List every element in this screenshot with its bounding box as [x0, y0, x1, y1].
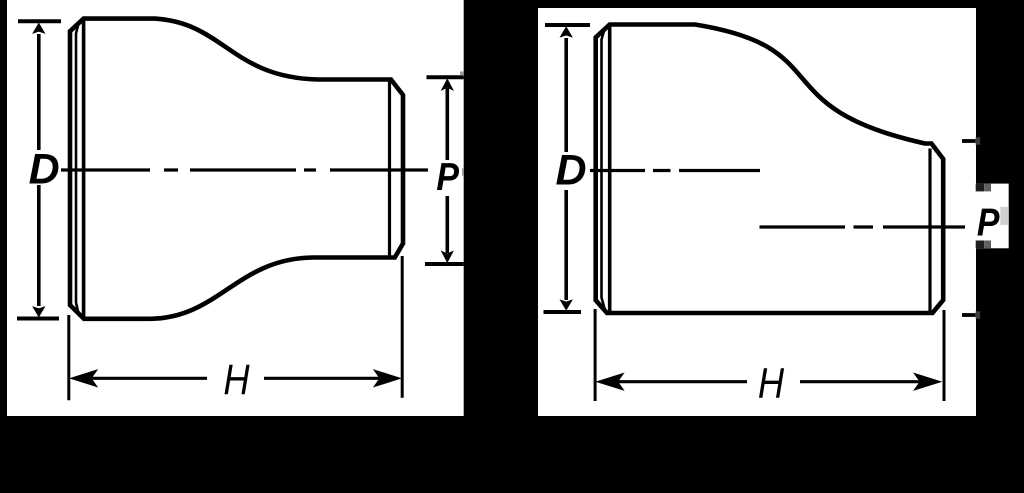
dimension H (left): right extension line [401, 256, 404, 398]
dimension D (left): up arrowhead [33, 24, 44, 34]
dimension H (right): left extension line [594, 309, 597, 401]
svg-text:P: P [977, 201, 1000, 244]
dimension H (left): left arrowhead [71, 370, 97, 387]
dimension P (right): arrow remnant squares at label box corners [976, 184, 1008, 249]
eccentric reducer small-end thin line [928, 149, 931, 312]
dimension H (right): right arrowhead [914, 373, 940, 390]
concentric reducer big-end seam line [82, 19, 86, 319]
eccentric reducer body outline [596, 25, 944, 314]
dimension D (left): down arrowhead [33, 307, 44, 317]
P label white box (right diagram) [976, 184, 1009, 249]
eccentric reducer big-end bevel thin line [602, 28, 605, 309]
svg-text:D: D [556, 146, 587, 194]
concentric reducer big-end bevel thin line [76, 22, 79, 315]
svg-text:D: D [29, 145, 60, 193]
dimension P (left): down arrowhead [442, 252, 453, 263]
svg-text:H: H [223, 356, 250, 403]
dimension H (left): right arrowhead [374, 370, 400, 387]
concentric reducer body outline [70, 19, 403, 319]
svg-text:H: H [758, 360, 785, 407]
right white panel [538, 8, 976, 416]
dimension D (left): bottom tick [17, 317, 59, 321]
dimension D (left): vertical line [37, 34, 41, 306]
dimension P (right): bottom tick [962, 313, 976, 317]
dimension H (right): dimension line [618, 380, 920, 383]
dimension D (right): vertical line [564, 38, 568, 300]
dimension P (left): vertical line [445, 88, 449, 253]
dimension H (left): left extension line [67, 315, 70, 400]
dimension P (left): bottom tick [425, 262, 464, 266]
dimension H (right): left arrowhead [597, 373, 623, 390]
dimension D (right): bottom tick [544, 310, 582, 314]
dimension P (left): gray remnant at panel edge [460, 72, 464, 76]
left white panel [7, 0, 464, 416]
dimension P (left): top tick [427, 75, 464, 79]
dimension D (right): top tick [545, 23, 590, 27]
eccentric reducer centerline (small end) [760, 225, 966, 228]
dimension P (right): top tick [962, 139, 976, 143]
dimension H (left): dimension line [92, 377, 380, 380]
eccentric reducer big-end seam line [608, 25, 612, 314]
svg-text:P: P [436, 156, 459, 199]
dimension H (right): right extension line [943, 310, 946, 401]
eccentric reducer centerline (big end) [590, 169, 760, 172]
dimension P (right): tick remnants over black edge [976, 137, 981, 319]
concentric reducer small-end thin line [388, 81, 391, 257]
dimension D (left): top tick [18, 19, 61, 23]
dimension P (left): up arrowhead [442, 79, 453, 90]
dimension D (right): up arrowhead [561, 27, 572, 37]
dimension D (right): down arrowhead [561, 300, 572, 310]
concentric reducer centerline [61, 168, 428, 171]
